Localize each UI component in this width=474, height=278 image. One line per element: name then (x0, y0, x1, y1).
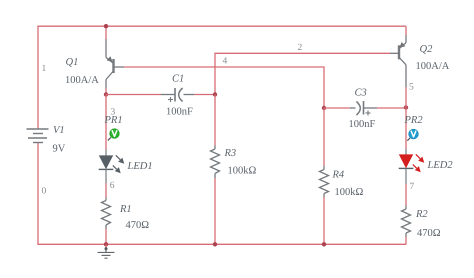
capacitor C3 (350, 101, 377, 116)
junction node 3 (104, 92, 108, 96)
LED1 (99, 150, 121, 184)
resistor R3 (211, 146, 220, 179)
wire R4 to bottom rail (323, 197, 325, 244)
resistor R1 (102, 198, 111, 230)
wire net 5 down to probe/LED2 (405, 108, 407, 150)
wire C1 left (106, 94, 161, 96)
junction C3/Q2 collector (404, 105, 408, 109)
svg-text:6: 6 (110, 181, 115, 191)
junction top rail / Q1 (104, 24, 108, 28)
svg-text:R2: R2 (415, 209, 428, 220)
wire bottom rail net 0 (38, 143, 406, 245)
transistor Q1 (106, 39, 124, 89)
ground (105, 244, 107, 247)
battery V1 (27, 129, 49, 143)
wire net 2 down to R3 (214, 95, 216, 146)
wire net 4 Q1 base to C3/R4 column (124, 67, 324, 108)
svg-text:100kΩ: 100kΩ (335, 187, 364, 198)
wire C3 right to Q2 collector (377, 107, 406, 109)
svg-text:PR1: PR1 (104, 115, 123, 126)
svg-text:R1: R1 (119, 204, 132, 215)
wire Q1 emitter drop (105, 26, 107, 39)
svg-text:100A/A: 100A/A (65, 75, 99, 86)
svg-text:PR2: PR2 (404, 115, 424, 126)
svg-text:100nF: 100nF (349, 119, 376, 130)
wire net 4 down to R4 (323, 108, 325, 166)
resistor R2 (402, 206, 411, 238)
wire Q2 emitter drop (405, 26, 407, 35)
junction R4/rail (322, 242, 326, 246)
resistor R4 (320, 166, 329, 197)
svg-text:9V: 9V (53, 144, 66, 155)
wire C3 left (324, 107, 350, 109)
svg-text:5: 5 (409, 83, 414, 93)
capacitor C1 (161, 88, 194, 102)
svg-text:100A/A: 100A/A (416, 61, 450, 72)
svg-text:Q2: Q2 (420, 44, 434, 55)
svg-text:100nF: 100nF (166, 107, 193, 118)
svg-text:LED2: LED2 (427, 160, 454, 171)
Q1 emitter arrow (107, 56, 113, 62)
svg-text:100kΩ: 100kΩ (228, 166, 257, 177)
wire R3 to bottom rail (214, 178, 216, 244)
wire R2 to bottom rail (405, 237, 407, 244)
wire Q1 collector to C1 row (105, 89, 107, 95)
wire R1 to bottom rail (105, 229, 107, 244)
junction C1/R3/net2 (213, 92, 217, 96)
svg-text:1: 1 (42, 64, 47, 74)
svg-text:R4: R4 (332, 170, 345, 181)
svg-text:C1: C1 (172, 74, 184, 85)
svg-text:LED1: LED1 (127, 161, 153, 172)
wire LED1 to R1 (105, 183, 107, 198)
junction R3/rail (213, 242, 217, 246)
wire top rail net 1 (38, 26, 406, 129)
svg-text:470Ω: 470Ω (126, 220, 150, 231)
svg-text:Q1: Q1 (66, 57, 79, 68)
junction net4/C3 (322, 106, 326, 110)
svg-text:7: 7 (410, 182, 415, 192)
wire Q2 collector to C3 row (405, 87, 407, 108)
svg-text:C3: C3 (355, 88, 367, 99)
wire net 2 R3/C1 column to Q2 base (215, 53, 390, 94)
svg-text:470Ω: 470Ω (417, 228, 441, 239)
svg-text:4: 4 (223, 57, 228, 67)
svg-text:R3: R3 (224, 148, 237, 159)
wire C1 right to net 2 (194, 94, 215, 96)
Q2 emitter arrow (399, 42, 405, 48)
transistor Q2 (390, 35, 406, 87)
junction R1/rail/ground (104, 242, 108, 246)
LED2 (399, 149, 421, 184)
svg-text:0: 0 (42, 187, 47, 197)
wire net 3 down to probe/LED1 (105, 95, 107, 150)
wire LED2 to R2 (405, 184, 407, 206)
svg-text:V1: V1 (53, 125, 65, 136)
svg-text:2: 2 (298, 43, 303, 53)
